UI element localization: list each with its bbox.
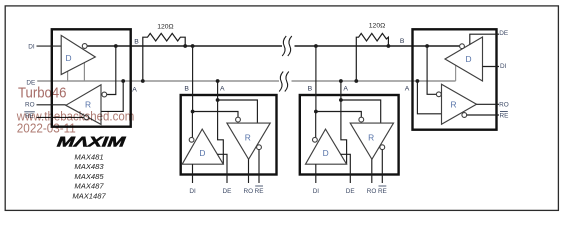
junction dot R2 lead on A bus <box>354 79 358 83</box>
junction dot on B bus <box>191 44 195 48</box>
svg-text:2022-03-11: 2022-03-11 <box>17 120 76 135</box>
receiver enable bubble <box>257 145 262 150</box>
wire: A branch down to driver output <box>218 100 224 164</box>
op-amp D driver triangle (U1) <box>61 35 95 74</box>
wire: RE lead to receiver enable bubble (U1) <box>37 116 85 118</box>
wire: RO lead from receiver apex (U1) <box>37 104 66 106</box>
svg-text:Turbo46: Turbo46 <box>18 86 67 102</box>
junction dot on A bus <box>216 79 220 83</box>
wire: driver A-output stub down to A bus (U1) <box>83 61 85 81</box>
pin RO stub and label <box>248 159 250 183</box>
wire: B junction down to receiver inverting bubble (U4) <box>427 46 436 94</box>
break mark on A bus <box>279 72 289 92</box>
wire: B drop from bus into box <box>192 46 194 112</box>
svg-text:B: B <box>134 39 139 46</box>
inverting bubble on R input (U1) <box>102 92 107 97</box>
receiver R triangle (points down) <box>227 123 270 159</box>
wire: A drop from bus into box <box>217 81 219 100</box>
junction dot R2 lead on B bus <box>387 44 391 48</box>
resistor R1 120 ohm termination (left) <box>143 33 185 81</box>
junction dot R1 lead on A bus <box>141 79 145 83</box>
transceiver U3 (second middle box, copy of U2) <box>306 44 394 195</box>
transceiver U1 (left box MAX481) <box>52 29 131 126</box>
wire: driver A-output stub (U4) <box>455 65 457 81</box>
inverting bubble on D output <box>189 137 194 142</box>
svg-text:D: D <box>465 54 471 64</box>
svg-text:D: D <box>65 53 71 63</box>
wire: B bus (top line, left segment to break mark) <box>87 45 282 47</box>
junction dot R1 lead on B bus <box>183 44 187 48</box>
box outline U3 <box>300 95 399 175</box>
receiver enable bubble (U1) <box>84 115 89 120</box>
inverting bubble on R input <box>236 117 241 122</box>
svg-text:DE: DE <box>222 188 231 195</box>
inverting bubble on D output (U4) <box>460 44 465 49</box>
wire: B continue down to driver bubble <box>191 112 193 138</box>
op-amp D driver triangle (points up) <box>182 129 223 164</box>
box outline U2 <box>181 95 277 175</box>
op-amp D driver triangle (U4, points left) <box>445 37 483 81</box>
svg-text:DI: DI <box>189 188 196 195</box>
receiver R triangle (U4, points right) <box>442 84 477 124</box>
receiver R triangle (U1) <box>66 85 101 125</box>
svg-text:120Ω: 120Ω <box>369 23 385 30</box>
svg-text:R: R <box>245 133 251 143</box>
wire: RE lead (U4) <box>467 114 499 116</box>
svg-text:MAX1487: MAX1487 <box>72 191 106 200</box>
junction dot B branch <box>191 110 195 114</box>
svg-text:DE: DE <box>499 30 508 37</box>
wire: RO lead from receiver apex (U4) <box>477 103 500 105</box>
pin RE stub, overline and label <box>258 150 260 183</box>
svg-text:MAX487: MAX487 <box>74 182 104 191</box>
wire: B branch to receiver inverting bubble <box>193 112 238 118</box>
svg-text:RE: RE <box>499 113 508 120</box>
transceiver U4 (right box) <box>413 29 497 129</box>
svg-text:A: A <box>220 85 225 92</box>
svg-text:MΛXIM: MΛXIM <box>56 135 127 151</box>
svg-text:B: B <box>400 38 405 45</box>
wire: DI lead (U4) <box>483 66 500 68</box>
junction dot A (U1) <box>121 79 125 83</box>
wire: A bus (gray lower line, left segment incl. DE lead of U1) <box>37 80 279 82</box>
svg-text:RE: RE <box>255 188 264 195</box>
svg-text:RO: RO <box>244 188 254 195</box>
junction dot B (U4) <box>425 44 429 48</box>
svg-text:D: D <box>199 148 205 158</box>
svg-text:RO: RO <box>25 102 35 109</box>
svg-text:B: B <box>184 85 189 92</box>
wire: A bus (gray lower line, right segment) <box>292 80 456 82</box>
pin DE stub and label <box>217 154 227 183</box>
inverting bubble on D output (U1) <box>82 44 87 49</box>
junction dot A branch <box>216 98 220 102</box>
wire: B junction down to receiver inverting bubble (U1) <box>107 46 116 95</box>
wire: B bus (right segment from break mark to right transceiver bubble) <box>295 45 460 47</box>
wire: DE enable lead (U4) <box>470 34 499 44</box>
pin DI stub and label <box>192 164 194 183</box>
transceiver U2 (first middle box) <box>182 44 270 195</box>
inverting bubble on R input (U4) <box>436 92 441 97</box>
svg-text:MAX485: MAX485 <box>74 172 104 181</box>
svg-text:A: A <box>132 87 137 94</box>
junction dot B (U1) <box>114 44 118 48</box>
svg-text:A: A <box>405 85 410 92</box>
svg-text:R: R <box>450 99 456 109</box>
svg-text:DI: DI <box>500 63 507 70</box>
resistor R2 120 ohm termination (right) <box>356 33 388 81</box>
wire: DE enable stub up to driver D edge (U1) <box>67 71 69 82</box>
svg-text:MAX483: MAX483 <box>74 162 104 171</box>
wire: A junction down to receiver input (U4) <box>417 81 441 114</box>
svg-text:RO: RO <box>499 102 509 109</box>
break mark on B bus <box>282 36 292 56</box>
svg-text:MAX481: MAX481 <box>74 152 103 161</box>
svg-text:R: R <box>85 100 91 110</box>
wire: DI lead into U1 driver <box>37 45 62 47</box>
junction dot A (U4) <box>416 79 420 83</box>
svg-text:120Ω: 120Ω <box>157 24 173 31</box>
svg-text:DI: DI <box>28 43 35 50</box>
receiver enable bubble (U4) <box>462 113 467 118</box>
wire: A junction down to receiver input (U1) <box>101 81 123 111</box>
wire: A branch right to receiver input <box>218 100 258 123</box>
